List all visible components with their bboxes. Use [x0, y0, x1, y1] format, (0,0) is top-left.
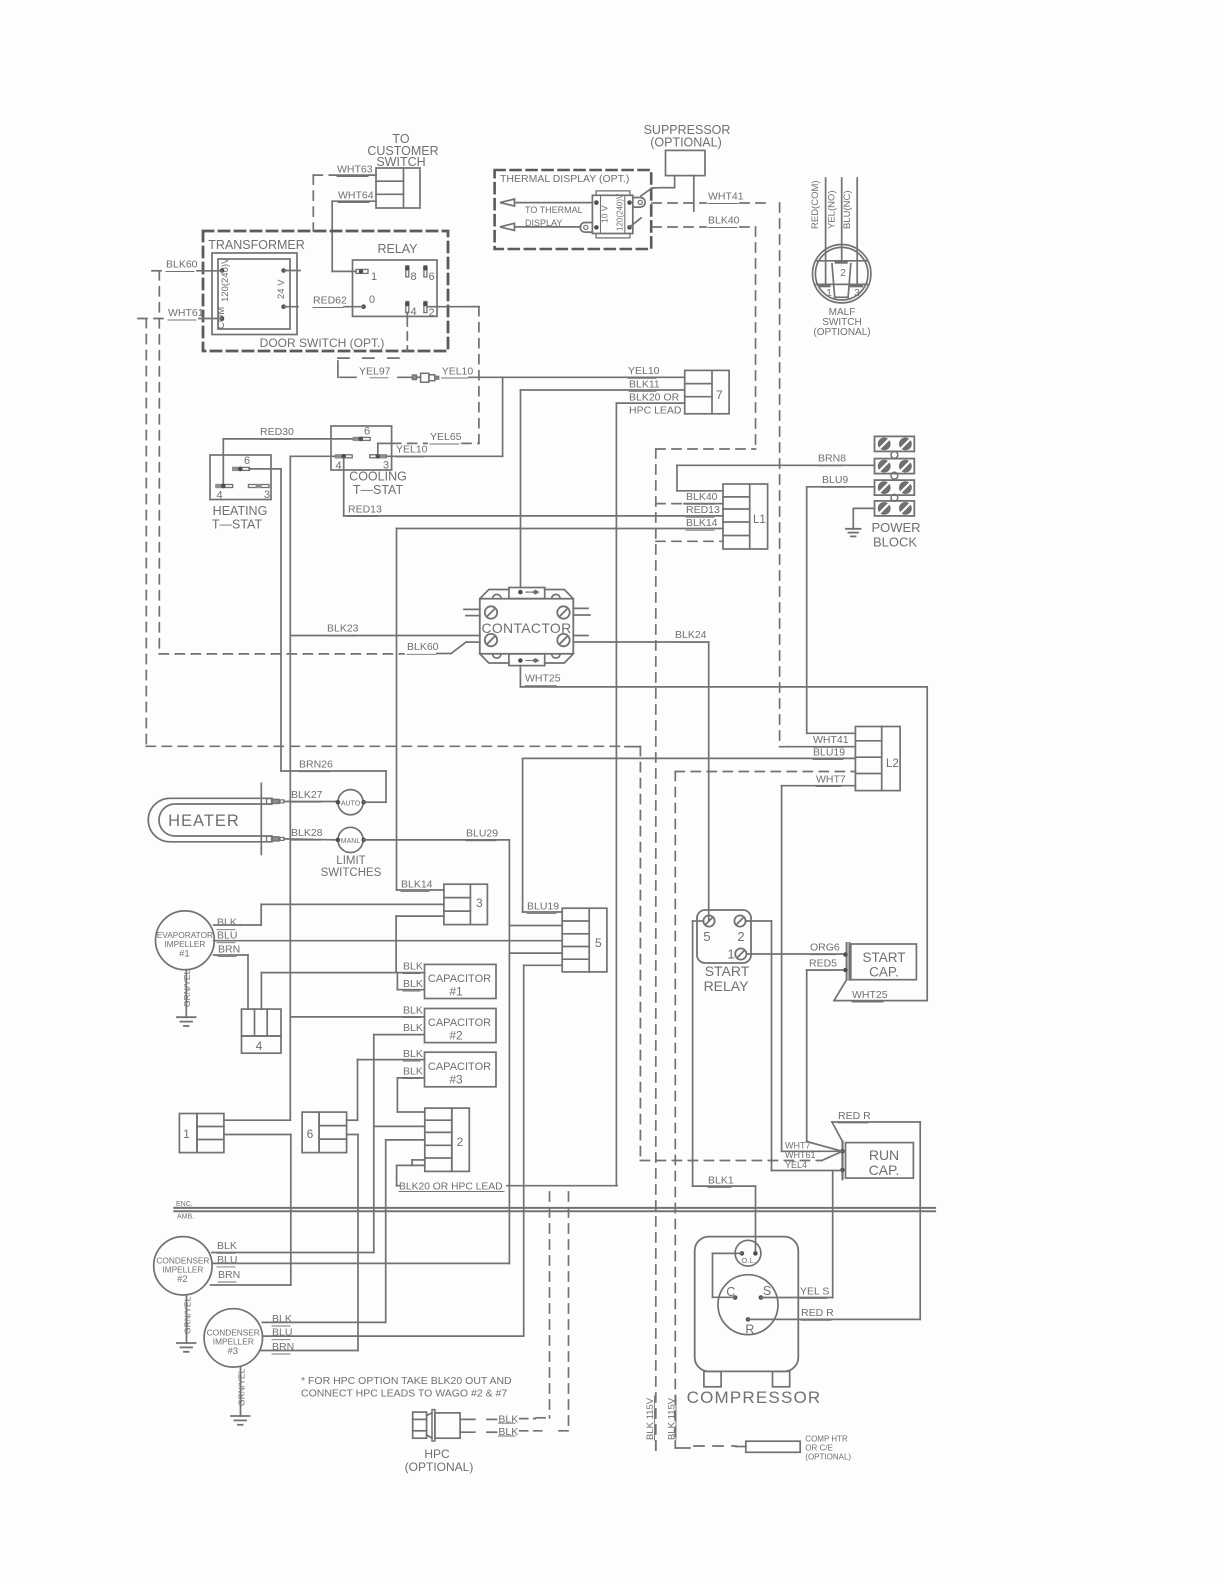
compressor foot right [773, 1371, 790, 1386]
wire RED5 drop to run cap [806, 970, 808, 1142]
svg-text:(OPTIONAL): (OPTIONAL) [805, 1453, 851, 1462]
wire cap2 upper [290, 1016, 424, 1018]
svg-text:5: 5 [595, 936, 602, 950]
wire BLU9 [807, 486, 875, 488]
svg-text:BRN26: BRN26 [299, 759, 333, 771]
wire WHT61 dashed to run cap [640, 1160, 821, 1162]
wire BLK40 into L1 [656, 503, 684, 505]
wire BRN26 [364, 801, 386, 803]
svg-text:WHT64: WHT64 [338, 190, 374, 202]
start relay screw 1 [735, 948, 746, 959]
start relay screw 2 [734, 915, 745, 926]
svg-text:BRN8: BRN8 [818, 453, 846, 465]
svg-text:GRN/YEL: GRN/YEL [183, 1296, 193, 1334]
svg-text:(OPTIONAL): (OPTIONAL) [813, 327, 870, 338]
HPC pressure switch [413, 1412, 427, 1438]
relay pin 2 [424, 302, 427, 313]
svg-text:6: 6 [307, 1127, 314, 1141]
dashed box DOOR SWITCH (OPT.) [203, 231, 448, 351]
wire RED13 [343, 459, 345, 516]
svg-text:RED(COM): RED(COM) [810, 180, 821, 229]
svg-text:WHT61: WHT61 [785, 1150, 816, 1160]
wire WHT41 dashed drop to L2 [779, 203, 781, 747]
wire BRN8 [677, 490, 723, 492]
wire wago3 row3 drop [396, 915, 444, 917]
wire wago2 row2 [374, 1125, 425, 1127]
svg-text:(OPTIONAL): (OPTIONAL) [405, 1460, 474, 1474]
wire wago2 row3 [386, 1139, 425, 1141]
wago L2 [855, 727, 900, 791]
svg-text:HEATING: HEATING [213, 504, 268, 518]
svg-text:SWITCH: SWITCH [376, 155, 425, 169]
wire RED62 [344, 306, 364, 308]
wire thermal diag upper [641, 188, 652, 196]
svg-text:2: 2 [840, 267, 846, 279]
wire YEL10 cooling [386, 455, 503, 457]
suppressor left leg [674, 176, 676, 188]
svg-text:BLU: BLU [217, 930, 237, 942]
evaporator impeller #1 [156, 911, 215, 970]
wire wago2 row4 [412, 1159, 425, 1161]
svg-text:HPC: HPC [424, 1447, 450, 1461]
wire BLK1 drop [692, 921, 694, 1186]
svg-text:COOLING: COOLING [349, 470, 407, 484]
svg-text:ORG6: ORG6 [810, 942, 840, 954]
relay pin 1 [356, 269, 368, 273]
svg-text:BLK14: BLK14 [401, 879, 433, 891]
wire start relay left stub [693, 920, 703, 922]
wire ground cond2 [186, 1295, 188, 1343]
svg-text:BLK: BLK [403, 978, 423, 990]
wire malf BLU(NC) [856, 178, 858, 284]
svg-text:BLK27: BLK27 [291, 789, 323, 801]
svg-text:YEL10: YEL10 [442, 366, 474, 378]
power block ground wire [853, 507, 874, 509]
contactor stubs [464, 608, 480, 610]
svg-text:WHT25: WHT25 [525, 673, 561, 685]
wire WHT25 from contactor [519, 666, 521, 687]
wire into wago5 row4 [509, 952, 562, 954]
wire malf RED(COM) [825, 178, 827, 284]
svg-text:BLK1: BLK1 [708, 1174, 734, 1186]
cooling pin 4 [335, 454, 344, 458]
svg-text:BLK14: BLK14 [686, 517, 718, 529]
compressor motor circle [718, 1275, 778, 1335]
svg-text:#1: #1 [179, 949, 190, 960]
svg-text:YEL(NO): YEL(NO) [827, 190, 838, 229]
thermal transformer right ear [633, 198, 645, 208]
heater plug lower [267, 836, 272, 842]
wire wago5 row5 drop [523, 965, 525, 1336]
relay K1 [353, 260, 438, 316]
svg-text:CAPACITOR: CAPACITOR [428, 1017, 491, 1029]
thermal transformer T2 [592, 195, 632, 233]
svg-text:* FOR HPC OPTION TAKE BLK: * FOR HPC OPTION TAKE BLK20 OUT AND [301, 1375, 512, 1387]
wire bus BLK23/cap2/wago1 riser [289, 456, 291, 1120]
svg-text:WHT61: WHT61 [168, 307, 204, 319]
compressor foot left [704, 1371, 721, 1386]
svg-text:SWITCHES: SWITCHES [321, 867, 382, 879]
wire BLU29 into wago5 row2 [509, 925, 562, 927]
wire BLU29 [364, 839, 510, 841]
start capacitor [846, 943, 848, 980]
condenser impeller #3 [204, 1309, 262, 1367]
svg-text:BLK40: BLK40 [686, 491, 718, 503]
start relay [697, 910, 751, 963]
suppressor [666, 150, 706, 175]
wire BLK40 dashed main drop [655, 449, 657, 1451]
wire BLK28 [284, 839, 338, 840]
wire pin4 dashed link [338, 357, 407, 359]
svg-text:BLU29: BLU29 [466, 828, 498, 840]
svg-text:CAPACITOR: CAPACITOR [428, 973, 491, 985]
wire O.L. to C [713, 1252, 742, 1254]
svg-text:BLK: BLK [403, 1048, 423, 1060]
svg-text:RED5: RED5 [809, 957, 837, 969]
wire BLU cond3 [262, 1335, 523, 1337]
svg-text:RED R: RED R [838, 1110, 871, 1122]
wire BLK cond2 [212, 1252, 374, 1254]
arrow to thermal display 2 [500, 223, 515, 230]
svg-text:TO THERMAL: TO THERMAL [525, 205, 583, 215]
wire BLK60 stub [197, 270, 222, 272]
svg-text:HEATER: HEATER [168, 812, 240, 830]
wire BLK27 [284, 801, 338, 803]
connector customer-switch [376, 168, 420, 208]
wago 5 connector [562, 908, 607, 972]
wire WHT63 [331, 174, 376, 176]
power block [875, 436, 915, 451]
wire transformer 24V right stub [284, 270, 300, 272]
svg-text:RUN: RUN [869, 1147, 899, 1163]
ground symbol (evap) [177, 1016, 196, 1018]
svg-text:BRN: BRN [218, 1269, 240, 1281]
wire YEL10 to wago 7 [469, 376, 685, 378]
svg-text:OR C/E: OR C/E [805, 1444, 833, 1453]
wire WHT64 [332, 200, 376, 202]
comp heater resistor [746, 1441, 800, 1452]
wire RED5 [807, 969, 843, 971]
svg-text:BLK28: BLK28 [291, 827, 323, 839]
svg-text:#2: #2 [177, 1274, 188, 1285]
svg-text:0: 0 [369, 294, 375, 306]
svg-text:2: 2 [457, 1135, 464, 1149]
svg-text:3: 3 [264, 489, 270, 501]
wire ground cond3 [240, 1367, 242, 1416]
svg-text:4: 4 [336, 460, 342, 472]
svg-text:BLK11: BLK11 [629, 378, 660, 390]
svg-text:RED R: RED R [801, 1307, 834, 1319]
svg-text:RELAY: RELAY [704, 978, 750, 994]
svg-text:WHT25: WHT25 [852, 989, 888, 1001]
svg-text:120(240)V: 120(240)V [616, 193, 625, 231]
svg-text:4: 4 [256, 1039, 263, 1053]
relay pin 4 [406, 302, 409, 313]
svg-text:YEL10: YEL10 [396, 444, 428, 456]
svg-text:BLK23: BLK23 [327, 623, 359, 635]
svg-text:(OPTIONAL): (OPTIONAL) [650, 136, 722, 150]
wire WHT7 drop to run cap [781, 786, 783, 1152]
heating pin 4 [215, 484, 224, 488]
svg-text:THERMAL DISPLAY (OPT.): THERMAL DISPLAY (OPT.) [500, 173, 629, 185]
svg-text:AMB.: AMB. [177, 1214, 194, 1221]
wire RED R to R [748, 1318, 920, 1320]
wire YEL4 drop [771, 921, 773, 1171]
wire dashed into L2 row4 [675, 771, 855, 773]
svg-text:1: 1 [371, 271, 377, 283]
wire heating pin6 to BRN26 riser [249, 468, 281, 470]
wire comp htr dashed 1 [655, 1441, 657, 1451]
wire wago6 row2 [347, 1134, 358, 1136]
wire cap3 lower drop to wago2 [396, 1078, 398, 1112]
wire cap2 lower drop [373, 1035, 375, 1253]
svg-text:DOOR SWITCH (OPT.): DOOR SWITCH (OPT.) [260, 336, 385, 350]
svg-text:BLK: BLK [403, 961, 423, 973]
svg-text:1: 1 [727, 947, 734, 962]
svg-text:120(240)V: 120(240)V [220, 257, 231, 302]
svg-text:BLK: BLK [403, 1022, 423, 1034]
svg-text:BLK: BLK [403, 1066, 423, 1078]
svg-text:7: 7 [716, 388, 723, 402]
svg-text:1: 1 [183, 1127, 190, 1141]
svg-text:T—STAT: T—STAT [353, 483, 404, 497]
wire cap3 lower [397, 1077, 424, 1079]
ground symbol (cond3) [231, 1415, 250, 1417]
svg-text:L2: L2 [886, 758, 899, 770]
svg-text:YEL S: YEL S [800, 1285, 829, 1297]
svg-text:BLK: BLK [217, 917, 237, 929]
wire BLK40 dashed [652, 226, 706, 228]
svg-text:BRN: BRN [218, 944, 240, 956]
svg-text:6: 6 [244, 455, 250, 467]
wire HPC dashed riser 1 [549, 1192, 551, 1418]
svg-text:24 V: 24 V [276, 279, 287, 299]
condenser impeller #2 [154, 1237, 212, 1295]
wire WHT41 dashed [652, 202, 706, 204]
wire BLK11 drop to contactor [520, 390, 522, 588]
wago L1 [723, 484, 768, 549]
wago 4 connector [242, 1009, 282, 1036]
wire BLK60 dashed run [159, 653, 404, 655]
wire BRN cond3 [261, 1350, 358, 1352]
wire comp htr dashed run [694, 1445, 736, 1447]
heating pin 6 [232, 467, 241, 471]
svg-text:#3: #3 [449, 1073, 463, 1087]
wire cooling pin4 left [290, 455, 334, 457]
wire thermal diag lower [630, 218, 641, 227]
thermal transformer left ear [580, 223, 592, 233]
wire WHT61 dashed run [146, 745, 625, 747]
svg-text:T—STAT: T—STAT [212, 518, 263, 532]
wire dashed into L1 row5 [656, 540, 723, 542]
wire cap3 upper drop to wago6 [357, 1060, 359, 1121]
wire BLU29 drop [508, 840, 510, 1264]
wire BLK20 main drop [615, 403, 617, 1186]
suppressor right leg [693, 176, 695, 211]
ground symbol (power block) [846, 528, 861, 530]
svg-text:RED13: RED13 [348, 504, 382, 516]
svg-text:IMPELLER: IMPELLER [162, 1265, 203, 1275]
wire HPC dashed riser 2 [568, 1192, 570, 1431]
limit switch AUTO [338, 790, 363, 815]
wire start relay screw2 out [746, 920, 772, 922]
svg-text:4: 4 [411, 306, 417, 318]
wire BLK cond3 [262, 1321, 385, 1323]
svg-text:3: 3 [854, 287, 860, 299]
cooling pin 3 [370, 455, 379, 458]
wire cap2 lower [374, 1034, 425, 1036]
svg-text:BLU(NC): BLU(NC) [842, 190, 853, 229]
wire BLK60 dashed riser [158, 271, 160, 654]
svg-text:IMPELLER: IMPELLER [213, 1337, 254, 1347]
svg-text:2: 2 [737, 929, 744, 944]
wire BLK evap [214, 924, 241, 926]
relay pin 6 [424, 266, 427, 277]
limit switch MANL [338, 827, 363, 852]
wire YEL97 to connector [398, 376, 412, 378]
arrow to thermal display 1 [500, 199, 515, 206]
wire YEL10 drop to cooling t-stat [502, 377, 504, 456]
svg-text:WHT41: WHT41 [708, 191, 744, 203]
wire relay pin2 out [427, 306, 479, 308]
wire HPC stub 2 [460, 1431, 475, 1433]
wire wago1 row2 [224, 1134, 291, 1136]
svg-text:8: 8 [411, 271, 417, 283]
wire ground evap [185, 970, 187, 1018]
wire BRN evap [214, 954, 248, 956]
wire RED R [832, 1121, 920, 1123]
svg-text:AUTO: AUTO [341, 801, 361, 808]
svg-text:5: 5 [703, 929, 710, 944]
wire comp htr dashed 2 [674, 1441, 676, 1448]
wire WHT25 run [520, 686, 927, 688]
svg-text:O.L.: O.L. [741, 1256, 755, 1265]
svg-text:IMPELLER: IMPELLER [164, 939, 205, 949]
cooling pin 6 [353, 437, 362, 441]
wire WHT63 dashed drop [312, 175, 314, 231]
wire cap1 upper [261, 972, 424, 974]
wire RED5 diagonal [807, 1142, 843, 1152]
label BLK (hpc2) [487, 1431, 497, 1433]
wire WHT25 drop [926, 687, 928, 1001]
svg-text:BLK20 OR: BLK20 OR [629, 392, 680, 404]
heating pin 3 [248, 485, 256, 488]
wire dashed drop x675 [674, 772, 676, 1442]
wire BLK20 [616, 402, 684, 404]
wire YEL S [761, 1297, 833, 1299]
svg-text:CAP.: CAP. [869, 1162, 900, 1178]
svg-text:GRN/YEL: GRN/YEL [237, 1368, 247, 1406]
malf switch S2 [813, 245, 871, 303]
svg-text:10 V: 10 V [600, 205, 610, 223]
compressor body [695, 1237, 799, 1372]
svg-text:BLK40: BLK40 [708, 215, 740, 227]
svg-text:BLU19: BLU19 [813, 747, 845, 759]
start relay screw 5 [703, 915, 714, 926]
svg-text:#3: #3 [228, 1346, 239, 1357]
wire HPC stub 1 [460, 1418, 475, 1420]
svg-text:YEL65: YEL65 [430, 431, 462, 443]
svg-text:WHT41: WHT41 [813, 734, 849, 746]
svg-text:BLK24: BLK24 [675, 629, 707, 641]
svg-text:BLK60: BLK60 [166, 259, 198, 271]
wire wago1 row2 drop to cond2 BRN [290, 1135, 292, 1286]
svg-text:6: 6 [429, 271, 435, 283]
svg-text:CAPACITOR: CAPACITOR [428, 1061, 491, 1073]
svg-text:COMPRESSOR: COMPRESSOR [687, 1388, 822, 1407]
wire YEL4 [772, 1170, 843, 1172]
svg-text:START: START [862, 950, 905, 965]
svg-text:WHT7: WHT7 [816, 774, 846, 786]
svg-text:CONTACTOR: CONTACTOR [481, 620, 571, 636]
wire BLU19 run [523, 757, 856, 759]
wago 3 connector [444, 884, 488, 924]
wire wago2 row3 drop to cond3 BLK [385, 1140, 387, 1323]
svg-text:MANL: MANL [341, 838, 361, 845]
capacitor C1 [425, 964, 497, 998]
wire wago6 row2 drop to cond3 BRN [357, 1135, 359, 1351]
wire malf YEL(NO) [841, 178, 843, 261]
heating t-stat [210, 455, 271, 500]
wire WHT7 [782, 785, 856, 787]
wago 6 connector [302, 1112, 319, 1153]
svg-text:#1: #1 [449, 985, 463, 999]
wire BLK14 [397, 528, 724, 530]
wire BLK40 dashed jog [656, 448, 756, 450]
wire cap3 upper [358, 1059, 425, 1061]
wire WHT41 into L2 [780, 746, 788, 748]
wire BLK24 [573, 641, 708, 643]
wago 1 connector [179, 1114, 197, 1153]
wire BLK11 [521, 389, 685, 391]
svg-text:YEL4: YEL4 [785, 1160, 807, 1170]
svg-text:#2: #2 [449, 1029, 463, 1043]
transformer T1 [212, 253, 297, 335]
wire wago1 row1 [224, 1119, 290, 1121]
wire BLU evap [214, 940, 563, 942]
svg-text:2: 2 [429, 307, 435, 319]
label BLK (hpc1) [487, 1418, 497, 1420]
svg-text:L1: L1 [753, 514, 766, 526]
svg-text:YEL10: YEL10 [628, 365, 660, 377]
wire YEL65 dashed riser [478, 307, 480, 444]
svg-text:BLK20 OR HPC LEAD: BLK20 OR HPC LEAD [399, 1181, 503, 1192]
compressor O.L. [735, 1240, 761, 1266]
svg-text:RED13: RED13 [686, 504, 720, 516]
wire start relay screw1 to start cap [747, 953, 846, 955]
relay pin 0 [361, 304, 366, 309]
wire cap1 lower [396, 973, 398, 990]
wire cooling pin3 riser [377, 443, 379, 454]
svg-text:CONNECT HPC LEADS TO WAGO: CONNECT HPC LEADS TO WAGO #2 & #7 [301, 1388, 507, 1400]
svg-text:BLK: BLK [403, 1005, 423, 1017]
svg-text:YEL97: YEL97 [359, 366, 391, 378]
enclosure boundary line [174, 1207, 935, 1209]
svg-text:HPC LEAD: HPC LEAD [629, 404, 682, 416]
wire relay pin4 down [406, 313, 408, 319]
wire BLK14 drop to wago3 [396, 529, 398, 891]
svg-text:BLU9: BLU9 [822, 474, 848, 486]
wire WHT61 dashed riser [145, 319, 147, 747]
svg-text:TRANSFORMER: TRANSFORMER [208, 238, 305, 252]
svg-text:RED30: RED30 [260, 426, 294, 438]
svg-text:4: 4 [217, 490, 223, 502]
svg-text:1: 1 [826, 287, 832, 299]
svg-text:BLU19: BLU19 [527, 901, 559, 913]
dashed box THERMAL DISPLAY (OPT.) [495, 170, 652, 249]
capacitor C3 [425, 1052, 497, 1087]
wire WHT64 to relay pin1 [331, 201, 333, 271]
